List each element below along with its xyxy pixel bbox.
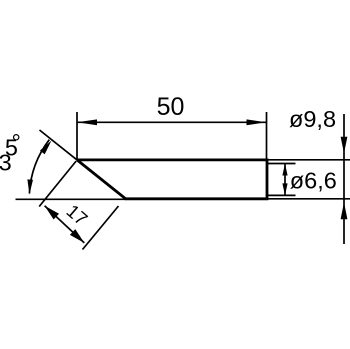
svg-text:ø6,6: ø6,6 <box>290 167 337 193</box>
svg-text:ø9,8: ø9,8 <box>289 106 336 132</box>
svg-text:°: ° <box>11 129 20 155</box>
svg-text:50: 50 <box>157 93 185 121</box>
